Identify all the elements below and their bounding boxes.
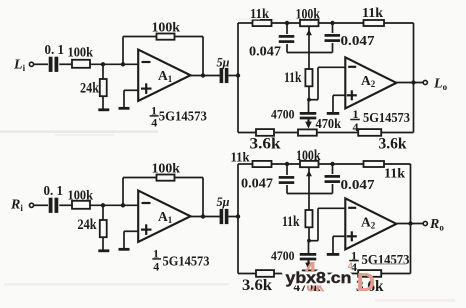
svg-text:5G14573: 5G14573: [163, 255, 210, 270]
svg-text:100k: 100k: [152, 161, 181, 176]
svg-text:470k: 470k: [316, 116, 342, 131]
svg-text:11k: 11k: [231, 149, 250, 164]
svg-text:4700: 4700: [271, 107, 295, 122]
svg-text:24k: 24k: [78, 217, 98, 233]
svg-text:D: D: [357, 267, 376, 297]
svg-text:0.047: 0.047: [341, 177, 375, 192]
svg-text:11k: 11k: [362, 5, 384, 20]
svg-text:100k: 100k: [296, 148, 321, 164]
svg-text:100k: 100k: [152, 20, 181, 35]
svg-text:100k: 100k: [296, 7, 321, 23]
svg-text:5μ: 5μ: [217, 194, 230, 209]
svg-text:4700: 4700: [271, 248, 295, 263]
svg-text:24k: 24k: [80, 81, 100, 97]
svg-text:0. 1: 0. 1: [45, 42, 65, 57]
svg-text:5μ: 5μ: [217, 55, 230, 70]
svg-text:3.6k: 3.6k: [250, 136, 281, 153]
svg-text:100k: 100k: [68, 188, 94, 203]
svg-text:0.047: 0.047: [241, 176, 273, 191]
svg-text:11k: 11k: [284, 70, 302, 86]
svg-text:5G14573: 5G14573: [159, 110, 207, 125]
svg-text:11k: 11k: [384, 166, 406, 181]
svg-text:4: 4: [151, 115, 157, 129]
svg-text:5G14573: 5G14573: [363, 111, 410, 126]
svg-text:3.6k: 3.6k: [379, 136, 407, 153]
svg-text:4: 4: [353, 120, 359, 134]
svg-text:0.047: 0.047: [341, 33, 375, 48]
svg-text:5G14573: 5G14573: [362, 253, 410, 268]
svg-text:0.047: 0.047: [249, 44, 281, 59]
svg-text:3.6k: 3.6k: [242, 277, 272, 294]
svg-text:4: 4: [153, 260, 159, 274]
svg-text:ybx8.cn: ybx8.cn: [286, 270, 352, 287]
svg-text:100k: 100k: [68, 45, 94, 60]
svg-text:11k: 11k: [282, 214, 300, 230]
svg-text:0. 1: 0. 1: [44, 183, 64, 198]
